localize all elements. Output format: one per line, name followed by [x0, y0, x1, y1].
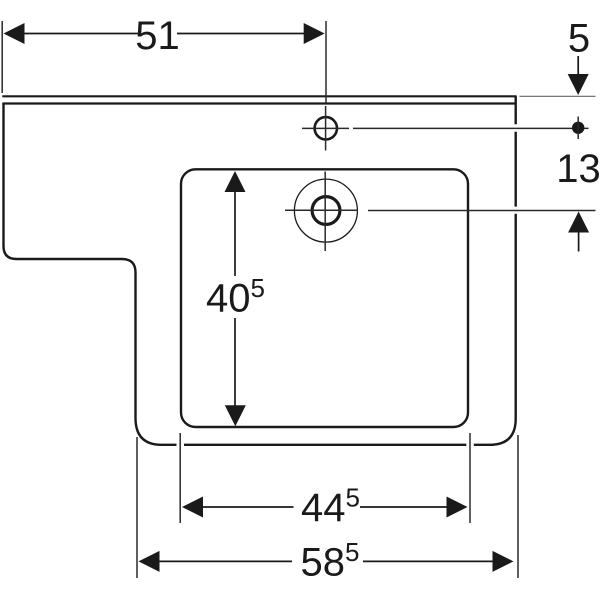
- white halo gap on right edge at drain line crossing: [511, 207, 521, 214]
- dimension 44.5 line right segment: [360, 506, 448, 508]
- svg-text:5: 5: [568, 17, 590, 61]
- tap hole circle: [315, 117, 337, 139]
- dimension 51 line left segment: [24, 33, 138, 35]
- dimension 40.5 bottom arrowhead: [225, 405, 246, 426]
- dimension 13 arrow tail: [578, 232, 580, 252]
- drain inner circle: [312, 197, 340, 225]
- washbasin outer top rear edge upper line: [2, 95, 516, 97]
- white halo gap on bottom edge at left extension line: [177, 440, 185, 450]
- svg-text:5: 5: [251, 273, 265, 303]
- tap hole horizontal centerline: [302, 127, 349, 129]
- drain reference line: [368, 210, 596, 212]
- drain horizontal centerline: [285, 209, 358, 211]
- reference dot tick: [577, 117, 579, 140]
- dimension 40.5 line upper segment: [234, 190, 236, 276]
- top edge reference line: [520, 95, 596, 97]
- dimension 58.5 right extension line: [517, 435, 519, 578]
- drain vertical centerline: [324, 172, 326, 252]
- svg-text:5: 5: [346, 483, 360, 513]
- dimension 58.5 right arrowhead: [493, 551, 514, 572]
- svg-text:51: 51: [135, 14, 180, 58]
- dimension 51 left arrowhead: [4, 23, 25, 44]
- svg-text:13: 13: [556, 147, 600, 191]
- dimension 13 arrowhead pointing up: [568, 212, 589, 233]
- dimension 44.5 left arrowhead: [182, 497, 203, 518]
- inner basin rounded outline: [181, 169, 468, 427]
- svg-text:5: 5: [345, 537, 359, 567]
- svg-text:40: 40: [206, 277, 251, 321]
- dimension 51 line right segment: [177, 33, 304, 35]
- dimension 44.5 right arrowhead: [447, 497, 468, 518]
- dimension 51 right arrowhead: [304, 23, 325, 44]
- dimension 58.5 line left segment: [159, 560, 292, 562]
- white halo gap on right edge at tap line crossing: [511, 124, 521, 131]
- drain outer circle: [294, 179, 357, 242]
- svg-text:44: 44: [301, 486, 346, 530]
- dimension 44.5 left extension line: [179, 433, 181, 523]
- dimension 44.5 right extension line: [469, 433, 471, 523]
- dimension 58.5 left arrowhead: [139, 551, 160, 572]
- tap hole reference line to dot: [353, 127, 589, 129]
- dimension 40.5 top arrowhead: [225, 171, 246, 192]
- reference dot: [572, 122, 584, 134]
- dimension 58.5 line right segment: [363, 560, 493, 562]
- washbasin outer top rear edge lower line: [2, 102, 514, 104]
- washbasin outer contour: [4, 96, 516, 445]
- svg-text:58: 58: [301, 540, 346, 584]
- dimension 5 arrow tail: [577, 56, 579, 78]
- dimension 51 right extension line: [325, 21, 327, 103]
- white halo gap on bottom edge at right extension line: [466, 440, 474, 450]
- dimension 58.5 left extension line: [136, 437, 138, 578]
- dimension 44.5 line left segment: [202, 506, 294, 508]
- dimension 5 arrowhead pointing down: [568, 74, 589, 95]
- tap hole vertical centerline: [325, 106, 327, 151]
- dimension 40.5 line lower segment: [234, 318, 236, 407]
- dimension 51 left extension line: [1, 21, 3, 93]
